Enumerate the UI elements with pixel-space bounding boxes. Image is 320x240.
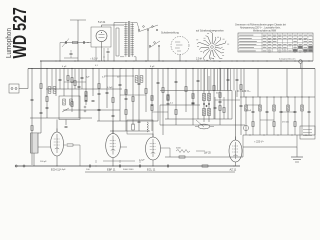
svg-text:0,1µF: 0,1µF xyxy=(246,110,252,112)
svg-text:2,5 V: 2,5 V xyxy=(196,57,202,60)
svg-text:Lumophon: Lumophon xyxy=(6,28,13,58)
svg-text:270 kΩ: 270 kΩ xyxy=(282,122,289,124)
svg-text:4 µF: 4 µF xyxy=(62,66,67,68)
svg-text:5 Z 21: 5 Z 21 xyxy=(98,20,106,24)
svg-text:EBF 11: EBF 11 xyxy=(107,167,116,171)
svg-text:auf Schalterachse gesehen: auf Schalterachse gesehen xyxy=(196,30,225,33)
svg-text:Netzspannung 220 V~ , Lautstä: Netzspannung 220 V~ , Lautstärke klein, xyxy=(240,26,281,29)
svg-text:Schalterstellung: Schalterstellung xyxy=(161,32,179,35)
svg-text:Wellenschalter auf MW: Wellenschalter auf MW xyxy=(253,29,277,32)
svg-text:100 pF: 100 pF xyxy=(40,161,47,163)
svg-text:AZ 11: AZ 11 xyxy=(230,167,237,171)
svg-text:8 µF: 8 µF xyxy=(150,66,155,68)
svg-text:0 ≈ 220 V~: 0 ≈ 220 V~ xyxy=(237,89,251,93)
svg-text:≈ 6,3 V: ≈ 6,3 V xyxy=(90,58,98,61)
svg-text:0,1µF: 0,1µF xyxy=(139,159,145,161)
svg-text:0,1µF: 0,1µF xyxy=(107,87,113,89)
svg-text:5000 2000: 5000 2000 xyxy=(123,169,134,171)
svg-text:Gemessen mit Röhrenvoltmeter g: Gemessen mit Röhrenvoltmeter gegen Chass… xyxy=(235,23,286,26)
svg-text:0,5µF: 0,5µF xyxy=(60,169,66,171)
svg-text:LW 25: LW 25 xyxy=(204,152,211,155)
svg-text:ECL 11: ECL 11 xyxy=(147,167,156,171)
svg-text:kurzgeschlossen: kurzgeschlossen xyxy=(279,58,296,61)
svg-text:≈ 220 V~: ≈ 220 V~ xyxy=(254,141,265,144)
